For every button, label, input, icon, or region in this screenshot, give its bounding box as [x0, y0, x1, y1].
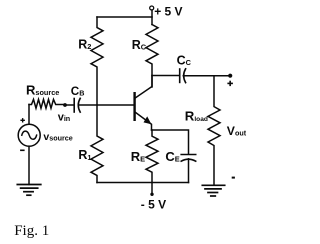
transistor Q1 emitter lead	[136, 113, 152, 131]
label output plus sign	[227, 81, 233, 86]
label output minus sign	[232, 177, 235, 179]
wire top rail	[97, 16, 152, 18]
transistor Q1 collector lead	[136, 76, 152, 98]
svg-text:+ 5 V: + 5 V	[154, 4, 182, 18]
label source plus sign	[20, 118, 25, 122]
resistor Rload	[208, 76, 220, 185]
svg-text:vin: vin	[58, 111, 71, 123]
ground left	[17, 185, 41, 196]
resistor RE	[146, 130, 158, 183]
capacitor CC left plate	[179, 69, 181, 82]
svg-text:- 5 V: - 5 V	[141, 197, 166, 211]
wire CC to output node	[183, 75, 230, 77]
-5V supply stub	[151, 183, 153, 194]
svg-text:RC: RC	[132, 38, 147, 52]
transistor Q1 emitter arrowhead	[144, 116, 152, 124]
node vout output dot	[228, 74, 232, 78]
svg-text:CC: CC	[177, 53, 192, 67]
ground right	[202, 185, 224, 196]
wire base	[79, 104, 135, 106]
capacitor CC right curved plate	[184, 69, 186, 83]
wire CE to bottom rail	[188, 159, 190, 183]
svg-text:RE: RE	[131, 149, 145, 164]
node vin junction dot	[63, 103, 67, 107]
capacitor CE bottom curved plate	[181, 159, 196, 161]
svg-text:Fig. 1: Fig. 1	[14, 223, 49, 239]
resistor R1	[91, 105, 103, 183]
transistor Q1 base bar	[133, 93, 135, 120]
svg-text:CB: CB	[71, 85, 85, 98]
svg-text:Rload: Rload	[185, 108, 208, 123]
capacitor CE top plate	[181, 154, 196, 156]
svg-text:R2: R2	[78, 38, 91, 52]
wire emitter node to RE and CE	[152, 130, 189, 154]
label source minus sign	[20, 149, 25, 151]
wire vsource to Rsource	[28, 105, 30, 125]
svg-text:R1: R1	[78, 148, 91, 162]
node -5V terminal dot	[150, 193, 153, 196]
svg-text:Vout: Vout	[227, 124, 247, 138]
wire input node to CB	[65, 104, 74, 106]
source Vsource circle	[18, 124, 40, 146]
source Vsource sine wave	[22, 131, 37, 139]
wire vsource to ground	[28, 146, 30, 184]
wire collector node to CC	[152, 75, 179, 77]
resistor Rsource	[29, 99, 65, 108]
+5V supply terminal	[150, 6, 154, 10]
wire +5V terminal to top rail and RC top	[151, 10, 153, 25]
svg-text:vsource: vsource	[43, 131, 72, 143]
resistor RC	[146, 25, 158, 88]
wire bottom rail	[97, 182, 189, 184]
svg-text:CE: CE	[165, 149, 179, 164]
capacitor CB right curved plate	[78, 98, 80, 112]
capacitor CB left plate	[73, 99, 75, 113]
resistor R2	[91, 17, 103, 105]
svg-text:Rsource: Rsource	[26, 83, 59, 98]
